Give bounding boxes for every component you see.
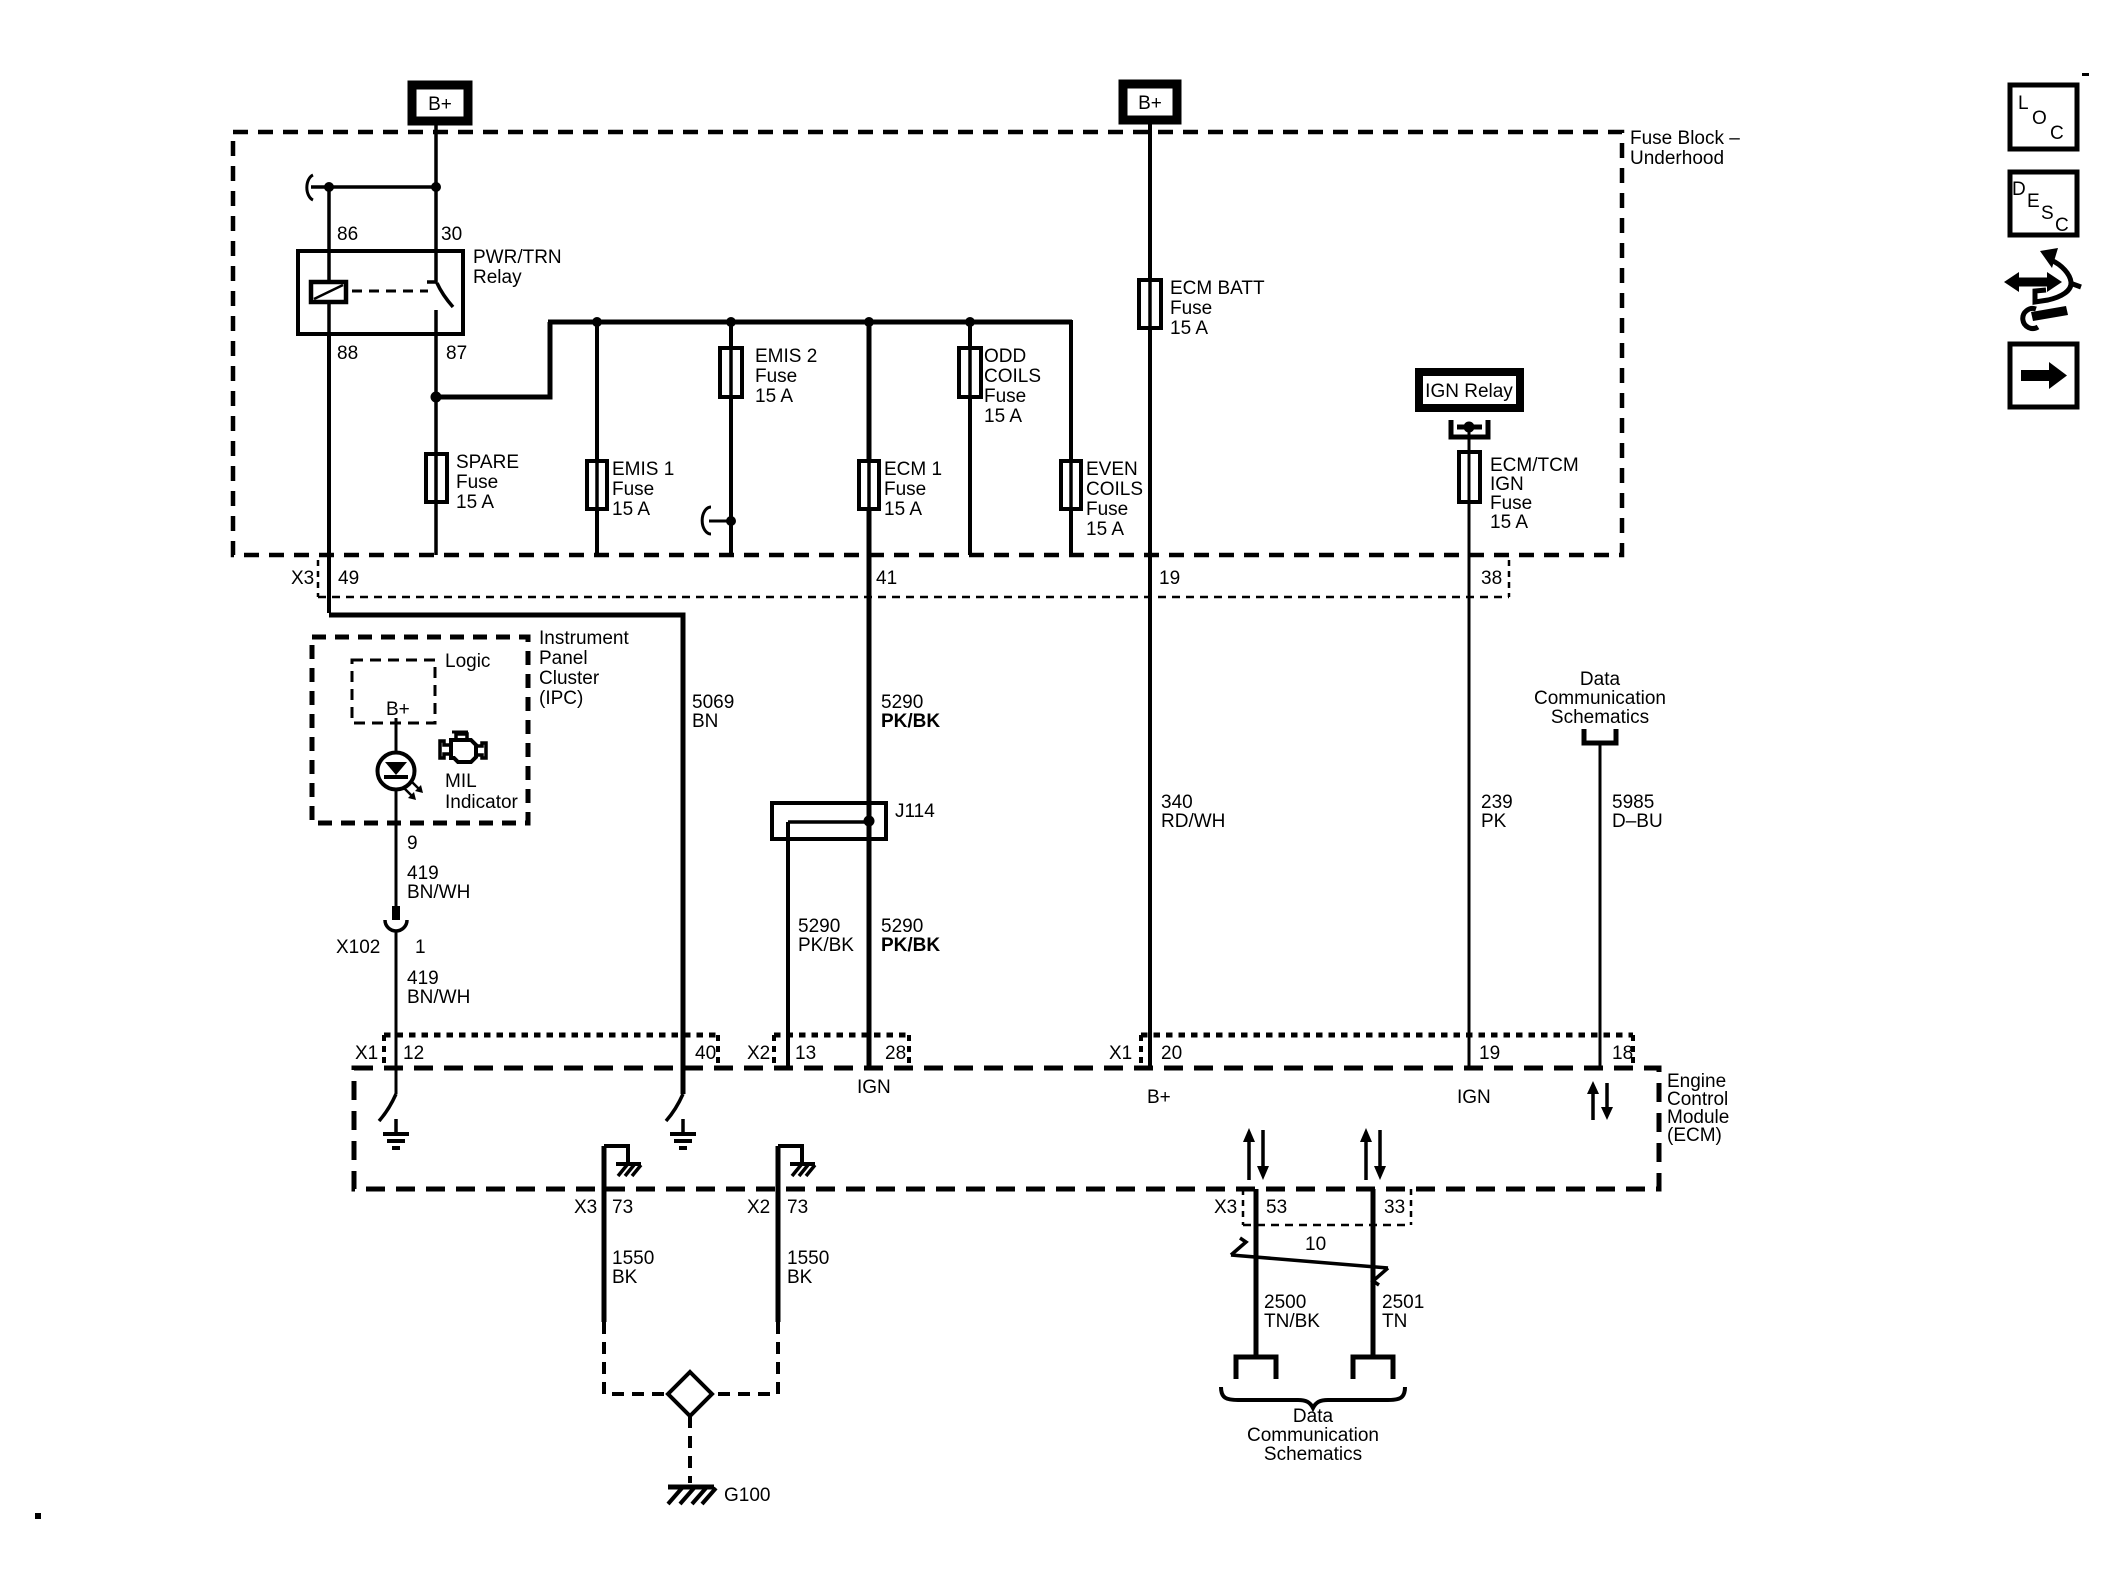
switch blade at ECM pin 12 [379, 1094, 396, 1121]
svg-text:B+: B+ [428, 94, 452, 115]
IPC label [539, 628, 629, 709]
svg-text:MIL: MIL [445, 771, 477, 792]
svg-text:15 A: 15 A [1490, 512, 1528, 533]
chassis ground stub X2-73 [778, 1146, 815, 1176]
dashed run to ground splice right [716, 1322, 778, 1394]
svg-text:X2: X2 [747, 1197, 770, 1218]
fuse SPARE 15A [426, 452, 519, 513]
label 2501 TN [1382, 1292, 1424, 1332]
data communication schematics reference (top) [1534, 669, 1666, 743]
wire 1550 BK left [602, 1146, 607, 1322]
label 5290 PK/BK upper [881, 692, 940, 732]
connector X3 pin labels [291, 568, 1502, 589]
svg-text:BN/WH: BN/WH [407, 987, 470, 1008]
svg-text:Communication: Communication [1247, 1425, 1379, 1446]
svg-text:RD/WH: RD/WH [1161, 811, 1225, 832]
svg-text:419: 419 [407, 968, 439, 989]
connector X3 bottom (dashed) [1243, 1189, 1411, 1225]
svg-text:15 A: 15 A [612, 499, 650, 520]
svg-text:Underhood: Underhood [1630, 148, 1724, 169]
svg-text:COILS: COILS [1086, 479, 1143, 500]
hook splice on EMIS2 wire [702, 507, 736, 534]
wire 5985 to ECM pin 18 [1599, 743, 1602, 1068]
svg-text:340: 340 [1161, 792, 1193, 813]
wire 2500 TN/BK [1254, 1189, 1259, 1356]
svg-text:X3: X3 [291, 568, 314, 589]
svg-text:IGN: IGN [857, 1077, 891, 1098]
svg-text:ECM BATT: ECM BATT [1170, 278, 1265, 299]
svg-text:ODD: ODD [984, 346, 1026, 367]
switch blade at ECM pin 40 [666, 1094, 683, 1121]
svg-text:Fuse: Fuse [1086, 499, 1128, 520]
svg-text:BK: BK [612, 1267, 638, 1288]
svg-text:PK/BK: PK/BK [881, 711, 940, 732]
svg-text:X1: X1 [355, 1043, 378, 1064]
terminal lug right [1353, 1357, 1393, 1379]
svg-text:1550: 1550 [612, 1248, 654, 1269]
svg-text:38: 38 [1481, 568, 1502, 589]
svg-text:D: D [2012, 179, 2026, 200]
wire hook to B+ drop [311, 185, 436, 189]
label 1550 BK right [787, 1248, 829, 1288]
svg-text:15 A: 15 A [755, 386, 793, 407]
relay coil wire pin 86 to 88 [327, 251, 331, 334]
svg-text:Panel: Panel [539, 648, 588, 669]
ECM connector row X1 (dotted) [384, 1035, 718, 1066]
svg-text:BK: BK [787, 1267, 813, 1288]
splice J114 [772, 803, 886, 839]
wire EMIS2 branch [729, 322, 733, 555]
svg-text:9: 9 [407, 833, 418, 854]
IGN Relay box [1419, 372, 1520, 408]
svg-text:BN: BN [692, 711, 718, 732]
bottom connector labels X3 73 X2 73 [574, 1197, 808, 1218]
svg-text:15 A: 15 A [1170, 318, 1208, 339]
MIL indicator label [445, 771, 519, 813]
wire pin 30 into relay [434, 251, 438, 283]
ECM box (dashed) [354, 1068, 1659, 1189]
svg-text:X1: X1 [1109, 1043, 1132, 1064]
svg-text:5290: 5290 [881, 692, 923, 713]
junction node ODD COILS [965, 317, 975, 327]
brace data communication [1221, 1387, 1405, 1408]
svg-text:EMIS 1: EMIS 1 [612, 459, 674, 480]
wire circuit 5069 from X3-49 [329, 334, 683, 1094]
svg-text:O: O [2032, 108, 2047, 129]
svg-text:73: 73 [787, 1197, 808, 1218]
terminal lug left [1236, 1357, 1276, 1379]
fuse EVEN COILS 15A [1061, 459, 1143, 540]
data link arrows at pin 18 [1587, 1081, 1613, 1120]
label 419 BN/WH upper [407, 863, 470, 903]
wire to relay pin 86 [327, 187, 331, 251]
svg-text:ECM/TCM: ECM/TCM [1490, 455, 1579, 476]
svg-text:Indicator: Indicator [445, 792, 519, 813]
X102 label [336, 937, 426, 958]
icon harness routing [2004, 248, 2081, 328]
connector labels X3 53 33 [1214, 1197, 1405, 1218]
svg-text:15 A: 15 A [884, 499, 922, 520]
svg-text:B+: B+ [1147, 1087, 1171, 1108]
svg-text:Fuse: Fuse [755, 366, 797, 387]
svg-text:19: 19 [1159, 568, 1180, 589]
svg-text:SPARE: SPARE [456, 452, 519, 473]
relay switch blade [427, 282, 453, 307]
svg-text:73: 73 [612, 1197, 633, 1218]
wire B+ to MIL lamp [395, 718, 398, 753]
svg-text:B+: B+ [1138, 93, 1162, 114]
stray mark bottom left [35, 1513, 41, 1519]
label 1550 BK left [612, 1248, 654, 1288]
svg-text:18: 18 [1612, 1043, 1633, 1064]
svg-text:30: 30 [441, 224, 462, 245]
relay contact to pin 87 [434, 310, 438, 397]
wire IGN fuse down to ECM pin 19 [1468, 500, 1471, 1068]
svg-text:15 A: 15 A [1086, 519, 1124, 540]
svg-text:E: E [2027, 191, 2040, 212]
chassis ground stub X3-73 [604, 1146, 641, 1176]
label 340 RD/WH [1161, 792, 1225, 832]
fuse EMIS1 15A [587, 459, 674, 520]
svg-text:Fuse: Fuse [1490, 493, 1532, 514]
twisted pair indicator [1231, 1238, 1388, 1285]
svg-text:IGN: IGN [1490, 474, 1524, 495]
data communication schematics label (bottom) [1247, 1406, 1379, 1465]
connector X102 [385, 906, 407, 931]
svg-text:Fuse: Fuse [456, 472, 498, 493]
wire ODD COILS branch [968, 322, 972, 555]
svg-text:2500: 2500 [1264, 1292, 1306, 1313]
label 5290 PK/BK left [798, 916, 854, 956]
wire IGN relay to fuse [1468, 427, 1471, 452]
ECM connector row X1 right (dotted) [1141, 1035, 1633, 1066]
svg-text:IGN: IGN [1457, 1087, 1491, 1108]
svg-text:419: 419 [407, 863, 439, 884]
svg-text:Logic: Logic [445, 651, 490, 672]
data link arrows at pin 33 [1360, 1128, 1386, 1180]
svg-text:X3: X3 [574, 1197, 597, 1218]
junction node EMIS2 [726, 317, 736, 327]
wire B+ through ECM BATT fuse down to ECM pin 20 [1148, 123, 1152, 1068]
svg-text:D–BU: D–BU [1612, 811, 1663, 832]
relay coil [311, 282, 346, 302]
svg-text:Fuse: Fuse [612, 479, 654, 500]
svg-text:BN/WH: BN/WH [407, 882, 470, 903]
svg-text:Relay: Relay [473, 267, 522, 288]
svg-text:PWR/TRN: PWR/TRN [473, 247, 562, 268]
svg-text:5290: 5290 [798, 916, 840, 937]
hook (wire continues) at relay feed [307, 175, 313, 200]
wire 2501 TN [1371, 1189, 1376, 1356]
junction node pin 87 / SPARE [431, 392, 442, 403]
wire J114 branch to ECM pin 13 [786, 822, 790, 1068]
svg-text:S: S [2041, 203, 2054, 224]
relay label [473, 247, 562, 288]
svg-text:Fuse Block –: Fuse Block – [1630, 128, 1740, 149]
label 5985 D-BU [1612, 792, 1663, 832]
wire EMIS1 branch [595, 322, 599, 555]
svg-text:53: 53 [1266, 1197, 1287, 1218]
svg-text:TN/BK: TN/BK [1264, 1311, 1320, 1332]
svg-text:Data: Data [1580, 669, 1621, 690]
wire 1550 BK right [776, 1146, 781, 1322]
svg-text:X3: X3 [1214, 1197, 1237, 1218]
svg-text:19: 19 [1479, 1043, 1500, 1064]
MIL indicator LED [378, 753, 424, 801]
dashed run to ground splice left [604, 1322, 664, 1394]
fuse ECM1 15A [859, 459, 942, 520]
junction node ECM1 [864, 317, 874, 327]
svg-text:10: 10 [1305, 1234, 1326, 1255]
dashed run diamond to G100 [688, 1416, 692, 1483]
junction node at coil branch [324, 182, 334, 192]
svg-text:Data: Data [1293, 1406, 1334, 1427]
svg-text:Schematics: Schematics [1264, 1444, 1362, 1465]
label 5069 BN [692, 692, 734, 732]
fuse feed bus [548, 320, 1072, 325]
svg-text:20: 20 [1161, 1043, 1182, 1064]
svg-text:X102: X102 [336, 937, 380, 958]
svg-text:EMIS 2: EMIS 2 [755, 346, 817, 367]
label 239 PK [1481, 792, 1513, 832]
svg-text:Instrument: Instrument [539, 628, 629, 649]
label 419 BN/WH lower [407, 968, 470, 1008]
wire ECM1 branch [867, 322, 872, 1068]
svg-text:C: C [2055, 215, 2069, 236]
svg-text:EVEN: EVEN [1086, 459, 1138, 480]
svg-text:1: 1 [415, 937, 426, 958]
wire jog relay 87 to fuse bus [436, 322, 550, 397]
svg-text:2501: 2501 [1382, 1292, 1424, 1313]
svg-text:5069: 5069 [692, 692, 734, 713]
svg-text:L: L [2018, 93, 2029, 114]
svg-text:Fuse: Fuse [884, 479, 926, 500]
svg-text:(ECM): (ECM) [1667, 1125, 1722, 1146]
wire SPARE branch [434, 397, 438, 555]
svg-text:239: 239 [1481, 792, 1513, 813]
icon DESC box [2010, 172, 2077, 236]
svg-text:IGN Relay: IGN Relay [1425, 381, 1513, 402]
engine pictogram [440, 732, 486, 762]
icon LOC box [2010, 85, 2077, 149]
svg-text:PK/BK: PK/BK [881, 935, 940, 956]
svg-text:86: 86 [337, 224, 358, 245]
svg-text:C: C [2050, 123, 2064, 144]
svg-text:88: 88 [337, 343, 358, 364]
wire EVEN COILS branch [1069, 320, 1073, 555]
label 2500 TN/BK [1264, 1292, 1320, 1332]
svg-text:Cluster: Cluster [539, 668, 600, 689]
power symbol B+ (right) [1123, 84, 1177, 120]
power symbol B+ (left) [412, 85, 468, 121]
svg-text:Communication: Communication [1534, 688, 1666, 709]
svg-text:28: 28 [885, 1043, 906, 1064]
connector X3 dashed line under fuse block [318, 560, 1509, 597]
junction node EMIS1 [592, 317, 602, 327]
svg-text:PK/BK: PK/BK [798, 935, 854, 956]
fuse ECM/TCM IGN 15A [1459, 452, 1579, 533]
svg-text:TN: TN [1382, 1311, 1407, 1332]
svg-text:13: 13 [795, 1043, 816, 1064]
junction node at B+ wire [431, 182, 441, 192]
earth ground under pin 40 [670, 1119, 696, 1148]
svg-text:Fuse: Fuse [1170, 298, 1212, 319]
wire MIL to pin 9 / X102 [395, 789, 398, 908]
svg-text:PK: PK [1481, 811, 1507, 832]
icon forward arrow box [2010, 344, 2077, 407]
svg-text:41: 41 [876, 568, 897, 589]
svg-text:5290: 5290 [881, 916, 923, 937]
relay PWR/TRN box [298, 251, 463, 334]
svg-text:COILS: COILS [984, 366, 1041, 387]
fuse block label [1630, 128, 1740, 169]
svg-text:15 A: 15 A [456, 492, 494, 513]
splice diamond [668, 1372, 712, 1416]
ECM label [1667, 1071, 1729, 1146]
svg-text:G100: G100 [724, 1485, 770, 1506]
svg-text:Schematics: Schematics [1551, 707, 1649, 728]
IPC box (dashed) [312, 637, 528, 823]
svg-text:49: 49 [338, 568, 359, 589]
relay coil-contact dashed link [352, 290, 428, 293]
earth ground under pin 12 [383, 1119, 409, 1148]
logic box (dashed) [352, 660, 435, 723]
svg-text:B+: B+ [386, 699, 410, 720]
svg-text:Fuse: Fuse [984, 386, 1026, 407]
svg-text:J114: J114 [895, 801, 935, 822]
fuse block underhood box (dashed) [233, 132, 1622, 555]
svg-text:ECM 1: ECM 1 [884, 459, 942, 480]
fuse EMIS2 15A [720, 346, 817, 407]
fuse ODD COILS 15A [959, 346, 1041, 427]
fuse ECM BATT 15A [1139, 278, 1265, 339]
wire X102 to ECM pin 12 [395, 931, 398, 1094]
svg-text:40: 40 [695, 1043, 716, 1064]
stray mark top right [2082, 73, 2089, 76]
svg-text:(IPC): (IPC) [539, 688, 583, 709]
IGN relay contact bracket [1451, 420, 1488, 437]
svg-text:5985: 5985 [1612, 792, 1654, 813]
ECM connector row X2 (dotted) [774, 1035, 909, 1066]
svg-text:33: 33 [1384, 1197, 1405, 1218]
svg-text:87: 87 [446, 343, 467, 364]
wire B+ to relay pin 30 [434, 124, 438, 251]
ground G100 [668, 1485, 770, 1506]
ECM pin labels [355, 1043, 1633, 1064]
svg-text:12: 12 [403, 1043, 424, 1064]
svg-text:15 A: 15 A [984, 406, 1022, 427]
svg-text:1550: 1550 [787, 1248, 829, 1269]
label 5290 PK/BK right [881, 916, 940, 956]
svg-text:X2: X2 [747, 1043, 770, 1064]
data link arrows at pin 53 [1243, 1128, 1269, 1180]
